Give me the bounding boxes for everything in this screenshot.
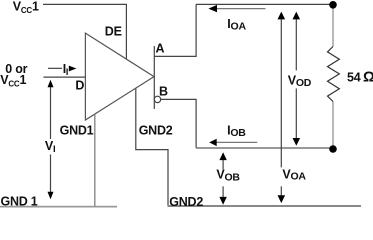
svg-text:GND 1: GND 1 (1, 195, 38, 209)
svg-text:D: D (75, 78, 84, 92)
svg-text:GND2: GND2 (139, 124, 173, 138)
svg-text:GND2: GND2 (169, 195, 203, 209)
svg-text:A: A (156, 41, 165, 55)
svg-text:VI: VI (45, 139, 55, 155)
svg-text:VOD: VOD (288, 73, 312, 89)
svg-text:VOB: VOB (216, 167, 240, 183)
svg-text:IOA: IOA (227, 17, 246, 32)
svg-text:IOB: IOB (227, 124, 246, 139)
svg-text:54: 54 (347, 70, 361, 84)
svg-text:II: II (63, 62, 68, 77)
svg-text:B: B (159, 85, 168, 99)
svg-text:GND1: GND1 (60, 123, 94, 137)
svg-text:DE: DE (105, 24, 122, 38)
svg-text:Ω: Ω (363, 70, 373, 86)
svg-text:VCC1: VCC1 (13, 0, 39, 15)
svg-text:VOA: VOA (282, 167, 306, 182)
